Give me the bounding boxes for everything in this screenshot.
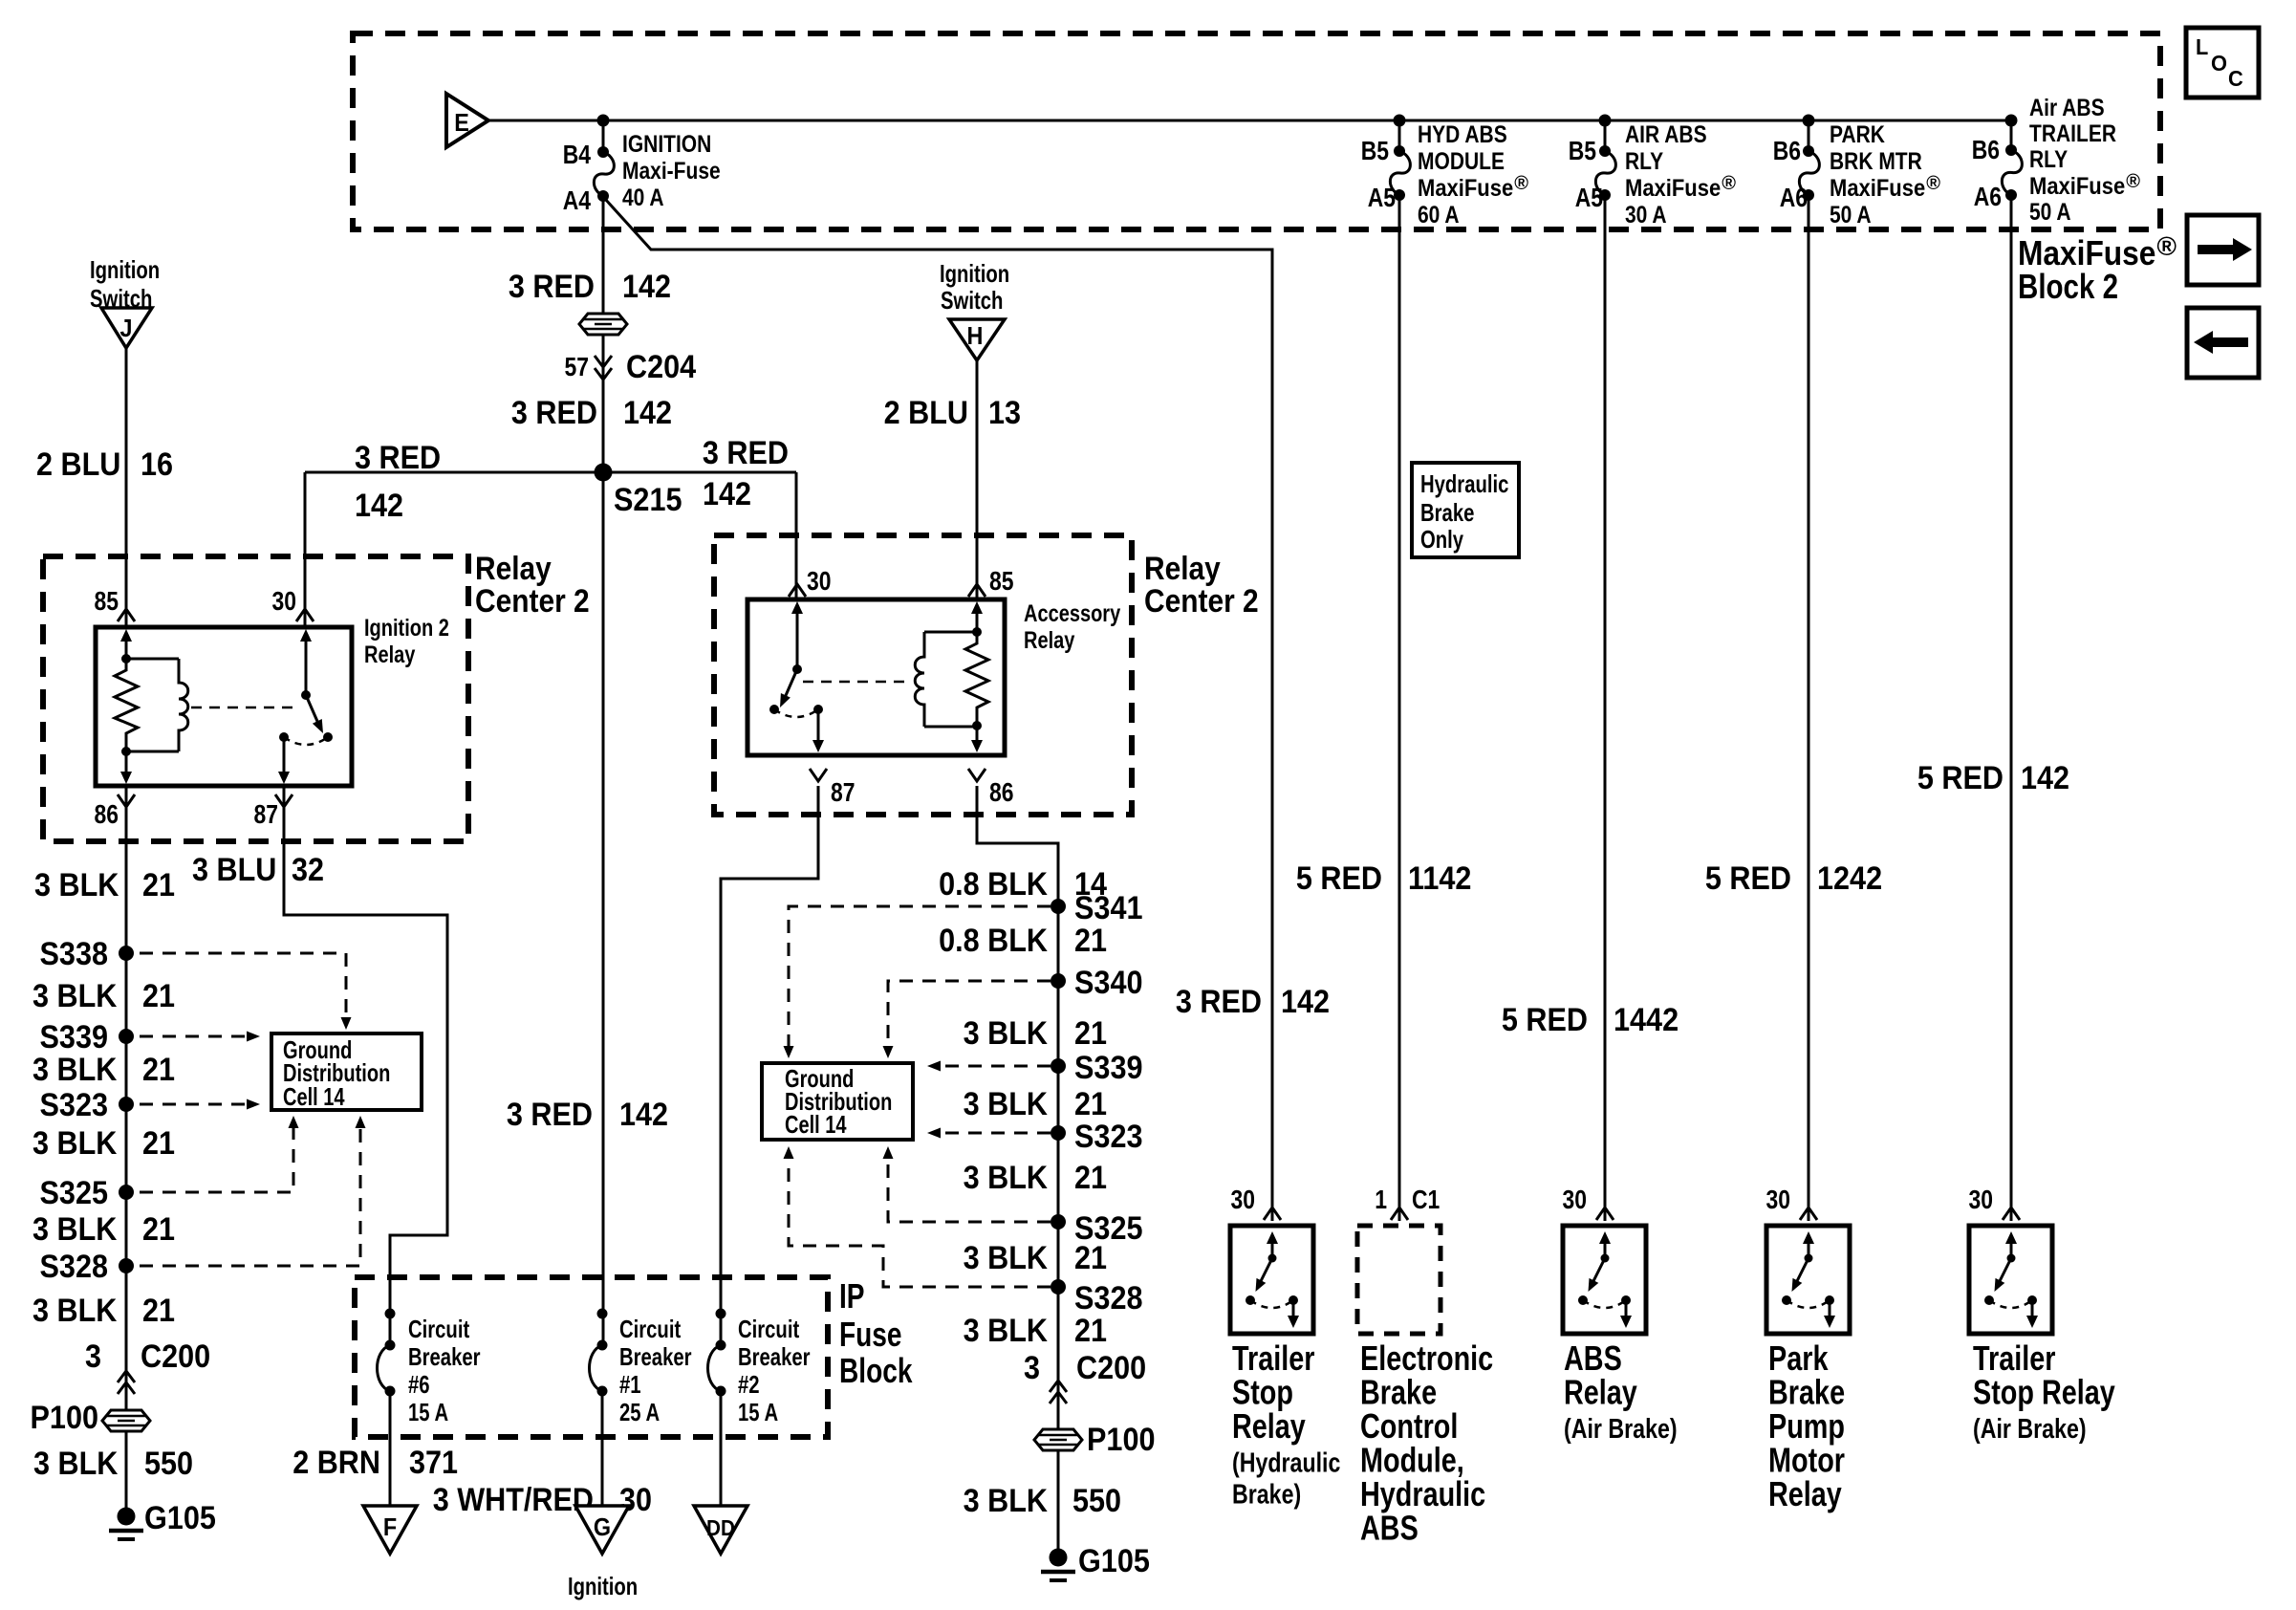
svg-text:Center 2: Center 2 (1144, 583, 1259, 620)
svg-text:3 RED: 3 RED (511, 395, 597, 431)
svg-text:87: 87 (831, 777, 856, 807)
svg-text:21: 21 (142, 1125, 175, 1162)
svg-text:Switch: Switch (941, 286, 1003, 315)
svg-text:21: 21 (1074, 1240, 1107, 1276)
svg-text:O: O (2211, 51, 2227, 76)
svg-text:40 A: 40 A (622, 185, 664, 211)
svg-text:(Air Brake): (Air Brake) (1973, 1414, 2087, 1445)
svg-text:Maxi-Fuse: Maxi-Fuse (622, 158, 721, 185)
svg-text:Circuit: Circuit (619, 1315, 681, 1343)
svg-text:3 RED: 3 RED (509, 269, 595, 305)
svg-text:3 RED: 3 RED (507, 1097, 593, 1133)
svg-text:30: 30 (1969, 1185, 1994, 1214)
svg-text:142: 142 (355, 488, 403, 524)
svg-text:30 A: 30 A (1625, 202, 1667, 228)
svg-text:3 WHT/RED: 3 WHT/RED (433, 1482, 594, 1518)
svg-text:3 BLK: 3 BLK (964, 1015, 1049, 1052)
svg-text:#2: #2 (738, 1370, 760, 1399)
svg-text:142: 142 (703, 476, 751, 512)
svg-text:#6: #6 (408, 1370, 430, 1399)
svg-text:Ignition 2: Ignition 2 (364, 615, 449, 642)
svg-text:Ignition: Ignition (568, 1572, 638, 1600)
svg-text:®: ® (1722, 173, 1736, 194)
svg-text:PARK: PARK (1830, 121, 1885, 148)
svg-text:Circuit: Circuit (408, 1315, 469, 1343)
svg-text:13: 13 (988, 395, 1021, 431)
svg-text:3 BLK: 3 BLK (964, 1483, 1049, 1519)
svg-text:G105: G105 (144, 1500, 216, 1536)
svg-text:50 A: 50 A (1830, 202, 1872, 228)
svg-text:C204: C204 (626, 349, 696, 385)
svg-text:1142: 1142 (1408, 860, 1471, 897)
svg-text:S339: S339 (1074, 1050, 1143, 1086)
svg-text:21: 21 (1074, 1015, 1107, 1052)
svg-text:3 BLK: 3 BLK (964, 1240, 1049, 1276)
svg-text:3 RED: 3 RED (355, 440, 441, 476)
svg-text:3: 3 (85, 1338, 101, 1375)
svg-text:C200: C200 (141, 1338, 210, 1375)
svg-text:Block 2: Block 2 (2018, 267, 2118, 306)
svg-text:B6: B6 (1972, 135, 2000, 164)
svg-text:Relay: Relay (1768, 1474, 1842, 1513)
svg-text:85: 85 (95, 586, 119, 616)
svg-text:Relay: Relay (1024, 627, 1074, 654)
svg-text:371: 371 (409, 1445, 458, 1481)
svg-text:15 A: 15 A (738, 1398, 778, 1426)
svg-text:Ignition: Ignition (940, 259, 1009, 288)
svg-text:21: 21 (1074, 1086, 1107, 1122)
svg-text:3 RED: 3 RED (703, 435, 789, 471)
svg-text:3 BLK: 3 BLK (964, 1160, 1049, 1196)
svg-text:3 BLK: 3 BLK (964, 1086, 1049, 1122)
svg-text:32: 32 (292, 852, 324, 888)
svg-text:0.8 BLK: 0.8 BLK (939, 923, 1048, 959)
svg-text:15 A: 15 A (408, 1398, 448, 1426)
svg-text:30: 30 (272, 586, 297, 616)
svg-text:MaxiFuse: MaxiFuse (2029, 173, 2125, 200)
svg-text:30: 30 (1766, 1185, 1791, 1214)
svg-text:G: G (594, 1512, 611, 1541)
svg-text:S341: S341 (1074, 890, 1143, 926)
svg-text:5 RED: 5 RED (1705, 860, 1791, 897)
svg-text:B6: B6 (1773, 136, 1801, 165)
svg-text:21: 21 (142, 1293, 175, 1329)
svg-text:3 BLK: 3 BLK (32, 1293, 118, 1329)
svg-text:G105: G105 (1078, 1543, 1150, 1579)
svg-text:B5: B5 (1569, 136, 1596, 165)
svg-text:RLY: RLY (1625, 148, 1663, 175)
svg-text:3 BLK: 3 BLK (32, 1052, 118, 1088)
svg-text:Relay: Relay (364, 642, 415, 668)
svg-text:5 RED: 5 RED (1502, 1002, 1588, 1038)
svg-text:S338: S338 (40, 936, 109, 972)
svg-text:ABS: ABS (1360, 1509, 1419, 1548)
svg-text:MaxiFuse: MaxiFuse (1625, 175, 1721, 202)
svg-text:142: 142 (2021, 760, 2069, 796)
svg-text:25 A: 25 A (619, 1398, 660, 1426)
svg-text:21: 21 (142, 1211, 175, 1248)
svg-text:Relay: Relay (1144, 551, 1221, 587)
svg-text:S328: S328 (1074, 1280, 1143, 1316)
svg-text:3 BLK: 3 BLK (33, 1446, 119, 1482)
svg-text:AIR ABS: AIR ABS (1625, 121, 1707, 148)
svg-text:50 A: 50 A (2029, 199, 2071, 226)
svg-text:A5: A5 (1575, 183, 1603, 212)
svg-text:1: 1 (1375, 1185, 1387, 1214)
svg-text:C1: C1 (1412, 1185, 1440, 1214)
svg-text:®: ® (2126, 171, 2140, 192)
svg-text:21: 21 (1074, 1313, 1107, 1349)
svg-text:Circuit: Circuit (738, 1315, 799, 1343)
svg-text:Cell 14: Cell 14 (785, 1110, 847, 1139)
svg-text:Relay: Relay (1232, 1406, 1306, 1446)
svg-text:B4: B4 (563, 140, 592, 169)
svg-text:TRAILER: TRAILER (2029, 120, 2116, 147)
svg-text:C: C (2228, 66, 2243, 91)
svg-text:86: 86 (95, 799, 119, 829)
svg-text:3 BLK: 3 BLK (34, 867, 119, 903)
svg-text:B5: B5 (1361, 136, 1389, 165)
svg-text:BRK MTR: BRK MTR (1830, 148, 1922, 175)
svg-text:3 BLK: 3 BLK (32, 1125, 118, 1162)
svg-text:S340: S340 (1074, 965, 1143, 1001)
svg-text:Brake: Brake (1420, 498, 1474, 527)
svg-text:3 BLK: 3 BLK (964, 1313, 1049, 1349)
svg-text:0.8 BLK: 0.8 BLK (939, 866, 1048, 903)
svg-text:142: 142 (619, 1097, 668, 1133)
svg-text:60 A: 60 A (1418, 202, 1460, 228)
svg-text:RLY: RLY (2029, 146, 2068, 173)
svg-text:MaxiFuse: MaxiFuse (1418, 175, 1513, 202)
svg-text:E: E (454, 108, 469, 137)
svg-text:3 BLK: 3 BLK (32, 978, 118, 1014)
svg-text:J: J (120, 314, 133, 342)
svg-text:30: 30 (1231, 1185, 1256, 1214)
svg-text:S323: S323 (1074, 1119, 1143, 1155)
svg-text:Relay: Relay (1564, 1373, 1637, 1412)
svg-text:142: 142 (622, 269, 671, 305)
svg-text:H: H (967, 321, 984, 350)
svg-text:3 RED: 3 RED (1176, 984, 1262, 1020)
svg-text:Only: Only (1420, 525, 1464, 554)
svg-text:Relay: Relay (475, 551, 552, 587)
svg-text:3 BLK: 3 BLK (32, 1211, 118, 1248)
svg-text:2 BRN: 2 BRN (292, 1445, 380, 1481)
svg-text:85: 85 (989, 566, 1014, 596)
svg-text:550: 550 (1072, 1483, 1121, 1519)
svg-text:S328: S328 (40, 1249, 109, 1285)
svg-text:(Air Brake): (Air Brake) (1564, 1414, 1678, 1445)
svg-text:2 BLU: 2 BLU (884, 395, 968, 431)
svg-text:Ignition: Ignition (90, 255, 160, 284)
svg-text:A4: A4 (563, 185, 592, 215)
svg-text:21: 21 (142, 867, 175, 903)
svg-text:16: 16 (141, 446, 173, 483)
svg-text:L: L (2196, 34, 2208, 59)
svg-text:21: 21 (142, 1052, 175, 1088)
svg-text:S339: S339 (40, 1019, 109, 1055)
svg-text:MODULE: MODULE (1418, 148, 1505, 175)
svg-text:Cell 14: Cell 14 (283, 1082, 345, 1111)
svg-text:Hydraulic: Hydraulic (1420, 469, 1508, 498)
svg-text:S325: S325 (40, 1175, 109, 1211)
svg-text:Center 2: Center 2 (475, 583, 590, 620)
svg-text:142: 142 (1281, 984, 1330, 1020)
svg-text:#1: #1 (619, 1370, 641, 1399)
svg-text:1442: 1442 (1614, 1002, 1679, 1038)
svg-text:Breaker: Breaker (738, 1342, 811, 1371)
svg-text:F: F (383, 1512, 397, 1541)
svg-text:3 BLU: 3 BLU (192, 852, 276, 888)
svg-text:2 BLU: 2 BLU (36, 446, 120, 483)
svg-text:A6: A6 (1974, 182, 2002, 211)
svg-text:S215: S215 (614, 482, 682, 518)
svg-text:57: 57 (565, 352, 590, 381)
svg-text:A5: A5 (1368, 183, 1396, 212)
svg-text:Block: Block (839, 1351, 913, 1390)
svg-text:21: 21 (1074, 923, 1107, 959)
svg-text:30: 30 (1563, 1185, 1588, 1214)
svg-text:DD: DD (706, 1515, 735, 1540)
svg-text:Brake): Brake) (1232, 1480, 1301, 1511)
svg-text:Air ABS: Air ABS (2029, 95, 2105, 121)
svg-text:®: ® (2156, 231, 2177, 261)
svg-text:P100: P100 (1087, 1422, 1156, 1458)
svg-text:®: ® (1514, 173, 1528, 194)
svg-text:A6: A6 (1780, 183, 1808, 212)
svg-text:142: 142 (623, 395, 672, 431)
svg-text:1242: 1242 (1817, 860, 1882, 897)
svg-text:IGNITION: IGNITION (622, 131, 711, 158)
svg-text:IP: IP (839, 1276, 865, 1316)
svg-text:(Hydraulic: (Hydraulic (1232, 1448, 1340, 1479)
svg-text:5 RED: 5 RED (1296, 860, 1382, 897)
svg-text:P100: P100 (31, 1400, 99, 1436)
svg-text:3: 3 (1024, 1350, 1040, 1386)
svg-text:MaxiFuse: MaxiFuse (1830, 175, 1925, 202)
svg-text:550: 550 (144, 1446, 193, 1482)
svg-text:S323: S323 (40, 1087, 109, 1123)
svg-text:Stop Relay: Stop Relay (1973, 1373, 2115, 1412)
svg-text:®: ® (1926, 173, 1940, 194)
svg-text:Breaker: Breaker (619, 1342, 692, 1371)
svg-text:C200: C200 (1076, 1350, 1146, 1386)
svg-text:Accessory: Accessory (1024, 600, 1120, 627)
svg-text:Fuse: Fuse (839, 1315, 902, 1354)
svg-text:HYD ABS: HYD ABS (1418, 121, 1507, 148)
svg-text:5 RED: 5 RED (1917, 760, 2004, 796)
svg-text:86: 86 (989, 777, 1014, 807)
svg-text:21: 21 (1074, 1160, 1107, 1196)
svg-text:Breaker: Breaker (408, 1342, 481, 1371)
svg-text:21: 21 (142, 978, 175, 1014)
svg-text:87: 87 (254, 799, 279, 829)
svg-text:30: 30 (807, 566, 832, 596)
